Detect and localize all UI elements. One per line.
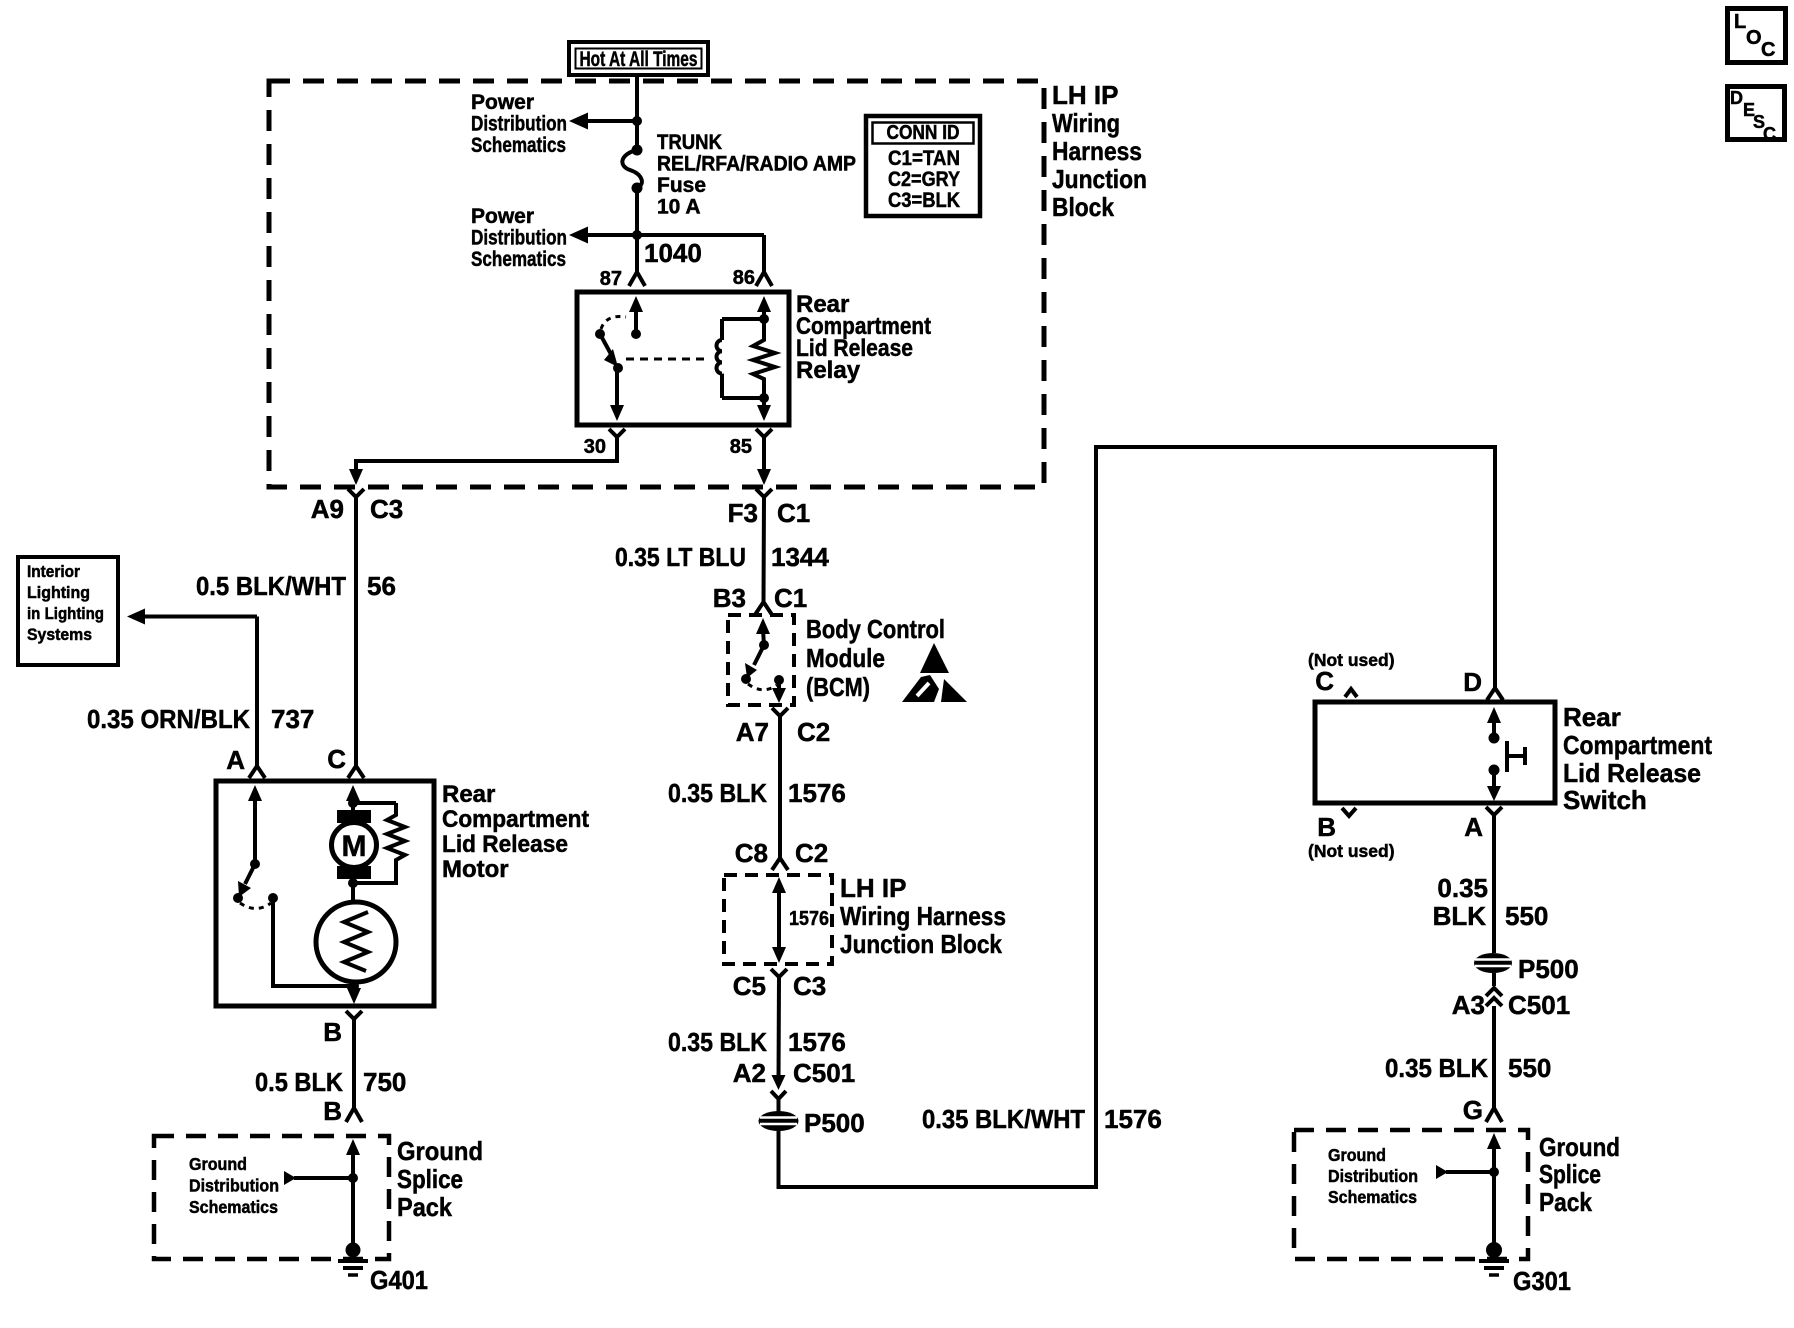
svg-text:(BCM): (BCM): [806, 672, 870, 702]
svg-text:550: 550: [1505, 901, 1548, 931]
svg-text:C5: C5: [733, 971, 766, 1001]
svg-text:750: 750: [363, 1067, 406, 1097]
svg-text:C2=GRY: C2=GRY: [888, 168, 960, 191]
svg-text:Lid Release: Lid Release: [442, 831, 568, 858]
svg-text:Junction Block: Junction Block: [840, 929, 1002, 959]
svg-text:Distribution: Distribution: [189, 1176, 279, 1196]
svg-text:Schematics: Schematics: [471, 134, 566, 157]
svg-text:A: A: [226, 745, 245, 775]
svg-text:A2: A2: [733, 1058, 766, 1088]
svg-text:TRUNK: TRUNK: [657, 131, 722, 154]
svg-text:C2: C2: [797, 717, 830, 747]
svg-text:Wiring: Wiring: [1052, 108, 1120, 138]
svg-text:Hot At All Times: Hot At All Times: [580, 48, 698, 71]
svg-text:30: 30: [584, 436, 606, 458]
svg-text:C501: C501: [1508, 990, 1570, 1020]
svg-text:0.5 BLK: 0.5 BLK: [255, 1067, 343, 1097]
svg-text:G: G: [1463, 1095, 1483, 1125]
svg-text:0.35 LT BLU: 0.35 LT BLU: [615, 542, 746, 572]
svg-text:0.35 ORN/BLK: 0.35 ORN/BLK: [87, 704, 250, 734]
svg-text:Schematics: Schematics: [1328, 1187, 1417, 1207]
svg-text:0.35 BLK: 0.35 BLK: [668, 1027, 767, 1057]
svg-text:Power: Power: [471, 205, 534, 228]
svg-text:Harness: Harness: [1052, 136, 1142, 166]
svg-text:C3: C3: [370, 494, 403, 524]
svg-text:CONN ID: CONN ID: [887, 122, 960, 144]
svg-text:P500: P500: [804, 1108, 865, 1138]
svg-text:737: 737: [271, 704, 314, 734]
svg-text:Fuse: Fuse: [657, 174, 706, 197]
svg-text:C: C: [1763, 124, 1776, 144]
svg-text:Block: Block: [1052, 192, 1114, 222]
svg-text:1576: 1576: [789, 908, 829, 930]
svg-text:C3: C3: [793, 971, 826, 1001]
svg-text:BLK: BLK: [1433, 901, 1487, 931]
svg-text:(Not used): (Not used): [1308, 841, 1395, 861]
svg-text:B: B: [323, 1096, 342, 1126]
svg-text:A9: A9: [311, 494, 344, 524]
svg-text:85: 85: [730, 436, 752, 458]
svg-text:in Lighting: in Lighting: [27, 605, 104, 623]
svg-text:Compartment: Compartment: [1563, 730, 1712, 760]
svg-text:REL/RFA/RADIO AMP: REL/RFA/RADIO AMP: [657, 153, 856, 176]
svg-text:C501: C501: [793, 1058, 855, 1088]
svg-text:Distribution: Distribution: [1328, 1166, 1418, 1186]
svg-text:Power: Power: [471, 91, 534, 114]
svg-text:87: 87: [600, 268, 622, 290]
svg-text:C8: C8: [735, 838, 768, 868]
svg-text:D: D: [1463, 667, 1482, 697]
svg-text:A7: A7: [736, 717, 769, 747]
svg-text:A3: A3: [1452, 990, 1485, 1020]
svg-text:56: 56: [367, 571, 396, 601]
svg-text:Rear: Rear: [442, 781, 495, 808]
svg-text:Interior: Interior: [27, 563, 81, 581]
svg-text:C3=BLK: C3=BLK: [888, 189, 960, 212]
svg-text:LH IP: LH IP: [840, 873, 906, 903]
svg-text:C2: C2: [795, 838, 828, 868]
svg-text:G401: G401: [370, 1265, 428, 1295]
svg-text:Wiring Harness: Wiring Harness: [840, 901, 1006, 931]
svg-text:M: M: [342, 830, 367, 863]
svg-text:C1=TAN: C1=TAN: [888, 147, 960, 170]
svg-text:Pack: Pack: [397, 1192, 452, 1222]
svg-text:Rear: Rear: [1563, 702, 1621, 732]
svg-text:1576: 1576: [1104, 1104, 1162, 1134]
svg-text:Ground: Ground: [397, 1136, 483, 1166]
svg-text:1344: 1344: [771, 542, 829, 572]
svg-text:Motor: Motor: [442, 856, 509, 883]
svg-text:C1: C1: [777, 498, 810, 528]
svg-text:0.35 BLK: 0.35 BLK: [668, 778, 767, 808]
svg-text:O: O: [1746, 27, 1762, 49]
svg-text:Pack: Pack: [1539, 1187, 1592, 1217]
svg-text:Ground: Ground: [1328, 1145, 1386, 1165]
svg-text:D: D: [1730, 88, 1743, 108]
svg-text:Splice: Splice: [1539, 1159, 1601, 1189]
svg-text:B3: B3: [713, 583, 746, 613]
svg-text:Compartment: Compartment: [442, 806, 589, 833]
svg-text:G301: G301: [1513, 1266, 1571, 1296]
svg-text:Module: Module: [806, 643, 885, 673]
svg-text:0.35 BLK: 0.35 BLK: [1385, 1053, 1488, 1083]
svg-text:Lid Release: Lid Release: [1563, 758, 1701, 788]
svg-text:Splice: Splice: [397, 1164, 463, 1194]
svg-text:C: C: [1761, 39, 1775, 61]
svg-text:Switch: Switch: [1563, 785, 1647, 815]
svg-text:C: C: [1315, 666, 1334, 696]
svg-text:F3: F3: [728, 498, 758, 528]
svg-text:Body Control: Body Control: [806, 614, 945, 644]
svg-text:550: 550: [1508, 1053, 1551, 1083]
svg-text:1576: 1576: [788, 778, 846, 808]
svg-text:Junction: Junction: [1052, 164, 1147, 194]
svg-text:L: L: [1734, 11, 1746, 33]
svg-text:0.35 BLK/WHT: 0.35 BLK/WHT: [922, 1104, 1085, 1134]
svg-text:Relay: Relay: [796, 357, 861, 384]
svg-text:Distribution: Distribution: [471, 227, 567, 250]
svg-text:C1: C1: [774, 583, 807, 613]
svg-text:86: 86: [733, 267, 755, 289]
svg-text:B: B: [323, 1017, 342, 1047]
svg-text:1576: 1576: [788, 1027, 846, 1057]
svg-text:Ground: Ground: [1539, 1132, 1620, 1162]
svg-text:LH IP: LH IP: [1052, 80, 1118, 110]
svg-text:Lighting: Lighting: [27, 584, 90, 602]
svg-text:0.5 BLK/WHT: 0.5 BLK/WHT: [196, 571, 346, 601]
svg-text:Distribution: Distribution: [471, 113, 567, 136]
svg-text:A: A: [1464, 812, 1483, 842]
svg-text:Schematics: Schematics: [189, 1197, 278, 1217]
svg-text:C: C: [327, 744, 346, 774]
svg-text:P500: P500: [1518, 954, 1579, 984]
svg-text:Systems: Systems: [27, 626, 92, 644]
svg-text:10 A: 10 A: [657, 196, 701, 219]
svg-text:0.35: 0.35: [1437, 873, 1488, 903]
svg-text:1040: 1040: [644, 238, 702, 268]
svg-text:Schematics: Schematics: [471, 248, 566, 271]
svg-text:Ground: Ground: [189, 1154, 247, 1174]
svg-text:B: B: [1317, 812, 1336, 842]
